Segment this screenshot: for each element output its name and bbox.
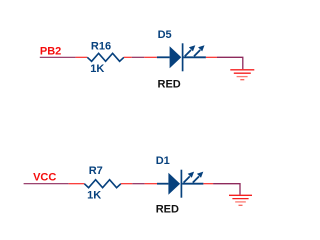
svg-text:VCC: VCC [33,171,56,183]
wire [217,57,243,69]
svg-text:1K: 1K [87,190,101,202]
resistor R16 [87,41,124,75]
wire [144,56,157,58]
wire [145,183,157,185]
wire [206,56,217,58]
wire [40,56,76,58]
ground [230,70,254,80]
svg-text:PB2: PB2 [40,46,61,58]
wire [132,56,145,58]
wire [76,56,88,58]
LED D5 [157,29,206,90]
LED D1 [156,155,204,216]
wire [132,183,144,185]
svg-text:D5: D5 [158,29,172,41]
svg-text:1K: 1K [90,63,104,75]
wire [24,183,69,185]
wire [124,56,132,58]
svg-text:R7: R7 [89,165,103,177]
svg-text:RED: RED [158,78,181,90]
wire [121,183,132,185]
svg-text:RED: RED [156,204,179,216]
svg-text:R16: R16 [91,41,111,53]
ground [229,195,252,205]
resistor R7 [84,165,121,202]
wire [213,184,240,195]
wire [69,183,85,185]
svg-text:D1: D1 [156,155,170,167]
wire [203,183,213,185]
